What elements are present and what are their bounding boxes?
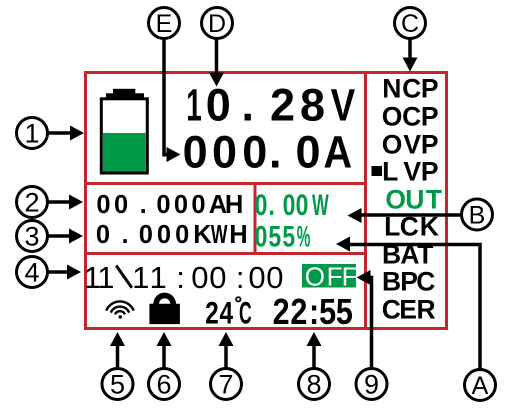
svg-text:3: 3 [24,222,39,252]
svg-text:CER: CER [382,295,436,325]
callout 4 [17,257,82,288]
svg-text:C: C [239,296,252,331]
percent text 055% [255,220,296,253]
callout A [336,237,496,401]
battery green fill [103,133,146,172]
callout C [395,8,426,72]
svg-text:LVP: LVP [382,157,438,187]
wifi icon [106,301,134,314]
svg-text:V: V [331,80,356,130]
callout 1 [17,118,85,149]
svg-text:9: 9 [364,370,379,400]
callout 7 [211,332,242,400]
callout 6 [149,332,180,400]
svg-text:NCP: NCP [382,74,438,104]
callout D [202,8,233,87]
voltage text 10.28V [186,80,202,130]
LVP marker square [372,166,383,176]
red divider horizontal below AH/KWH [84,252,367,255]
svg-text:11:00:00: 11:00:00 [132,260,283,295]
svg-text:1: 1 [186,80,202,130]
svg-text:000.0: 000.0 [183,127,321,178]
callout 5 [102,332,133,400]
svg-text:1: 1 [24,119,39,149]
callout 9 [356,270,387,400]
svg-text:OCP: OCP [382,102,439,132]
lock icon [156,296,173,305]
svg-text:OFF: OFF [305,262,358,292]
svg-text:11: 11 [84,260,115,295]
svg-text:%: % [297,220,311,253]
red divider vertical AH-box / W-box [254,183,257,254]
battery icon body [101,99,147,173]
svg-text:055: 055 [255,220,296,253]
svg-text:E: E [156,10,173,38]
callout 8 [299,332,330,400]
callout 2 [17,187,84,218]
svg-text:D: D [208,10,226,38]
watts text 0.00W [255,188,309,221]
display outer red frame [86,73,447,329]
svg-text:H: H [229,221,247,249]
svg-text:W: W [211,220,228,249]
svg-text:7: 7 [218,370,233,400]
OFF indicator box [302,264,356,288]
callout E [149,8,181,163]
svg-text:2: 2 [24,188,39,218]
svg-text:W: W [312,190,329,223]
svg-text:5: 5 [110,370,125,400]
svg-text:6: 6 [156,370,171,400]
red divider horizontal below V/A [84,182,367,185]
svg-text:BPC: BPC [382,267,435,297]
red divider vertical main/right column [364,72,367,329]
svg-text:B: B [469,202,486,230]
svg-text:OUT: OUT [385,185,441,215]
callout B [348,199,493,230]
svg-text:24: 24 [205,295,233,331]
svg-text:00.000AH: 00.000AH [96,191,243,219]
svg-text:OVP: OVP [382,130,439,160]
svg-text:A: A [324,127,353,177]
svg-text:8: 8 [306,370,321,400]
svg-text:A: A [472,372,489,400]
svg-text:4: 4 [24,258,39,288]
callout 3 [17,221,84,252]
svg-text:C: C [401,10,419,38]
svg-text:22:55: 22:55 [273,293,353,333]
temperature text 24°C [205,295,233,331]
clock text 22:55 [273,293,353,333]
battery cap [106,93,144,99]
